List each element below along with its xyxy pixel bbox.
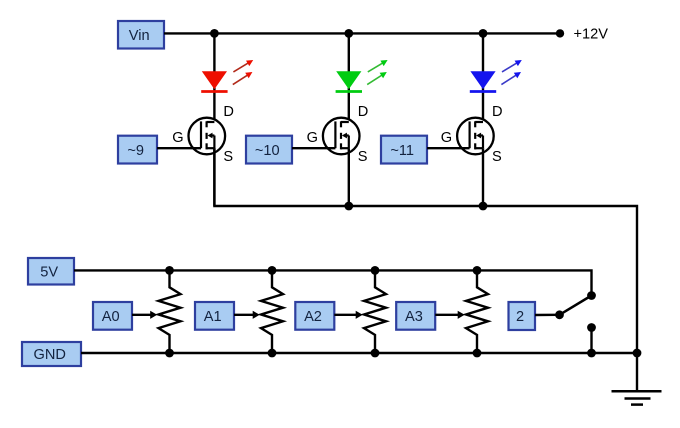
svg-text:A3: A3 [405,309,423,325]
wire +12V top rail [164,32,560,34]
net label GND [22,342,81,366]
wire drain column 2 [348,33,350,122]
node top rail junction 1 [210,29,219,38]
transistor Q3 (N-MOSFET) [457,118,494,155]
wire wiper arrow A2 [334,311,362,319]
wire GND rail [81,352,637,354]
potentiometer R2 (A1) [261,270,283,353]
node GND rail junction A0 [165,349,174,358]
svg-text:A1: A1 [204,309,222,325]
LED D3 (blue) [470,60,522,92]
transistor Q2 (N-MOSFET) [323,118,360,155]
LED D1 (red) [201,60,253,92]
net label A2 [295,302,334,330]
wire gate Q1 [157,147,201,149]
ground [612,353,662,405]
svg-text:5V: 5V [40,264,58,280]
switch S1 top throw [587,291,596,300]
transistor Q1 (N-MOSFET) [189,118,226,155]
node 5V rail junction A2 [371,266,380,275]
svg-text:S: S [358,149,368,165]
net label A1 [195,302,234,330]
wire drain column 1 [213,33,215,122]
node top rail junction 3 [479,29,488,38]
wire source column 3 [482,148,484,206]
wire wiper arrow A1 [234,311,260,319]
net label ~9 [118,136,157,164]
node GND rail junction A1 [268,349,277,358]
net label A0 [93,302,132,330]
net label ~10 [246,136,292,164]
svg-text:~10: ~10 [255,143,280,159]
terminal +12V [556,29,564,37]
node GND rail junction A3 [473,349,482,358]
net label Vin [118,21,164,49]
wire 5V rail [74,270,592,295]
svg-text:~11: ~11 [390,143,414,159]
node 5V rail junction A3 [473,266,482,275]
wire gate Q2 [292,147,335,149]
switch S1 (pole) [555,296,591,320]
net label A3 [396,302,435,330]
wire wiper arrow A0 [132,311,157,319]
wire source rail to ground [214,148,637,353]
net label ~11 [381,136,427,164]
svg-text:G: G [172,130,183,146]
wire source column 2 [348,148,350,206]
potentiometer R1 (A0) [159,270,181,353]
svg-text:+12V: +12V [574,27,609,43]
svg-text:2: 2 [516,309,524,325]
node GND rail junction switch [587,349,596,358]
node 5V rail junction A0 [165,266,174,275]
node GND rail junction A2 [371,349,380,358]
wire gate Q3 [427,147,470,149]
svg-text:~9: ~9 [127,143,144,159]
potentiometer R4 (A3) [466,270,488,353]
node source rail junction 2 [344,202,353,211]
svg-text:G: G [307,130,318,146]
node top rail junction 2 [344,29,353,38]
svg-text:D: D [223,104,234,120]
svg-text:D: D [358,104,369,120]
svg-text:S: S [492,149,502,165]
net label 5V [28,258,74,285]
node ground junction [633,349,642,358]
wire drain column 3 [482,33,484,122]
svg-text:Vin: Vin [129,28,150,44]
svg-text:G: G [441,130,452,146]
LED D2 (green) [336,60,388,92]
wire source column 1 [213,148,215,206]
switch S1 bottom throw [587,323,596,353]
svg-text:S: S [223,149,233,165]
net label 2 [509,302,536,330]
svg-text:A2: A2 [304,309,322,325]
svg-text:D: D [492,104,503,120]
svg-text:A0: A0 [102,309,120,325]
potentiometer R3 (A2) [364,270,386,353]
node 5V rail junction A1 [268,266,277,275]
svg-text:GND: GND [33,347,65,363]
wire switch pole [535,314,557,317]
node source rail junction 3 [479,202,488,211]
wire wiper arrow A3 [435,311,465,319]
